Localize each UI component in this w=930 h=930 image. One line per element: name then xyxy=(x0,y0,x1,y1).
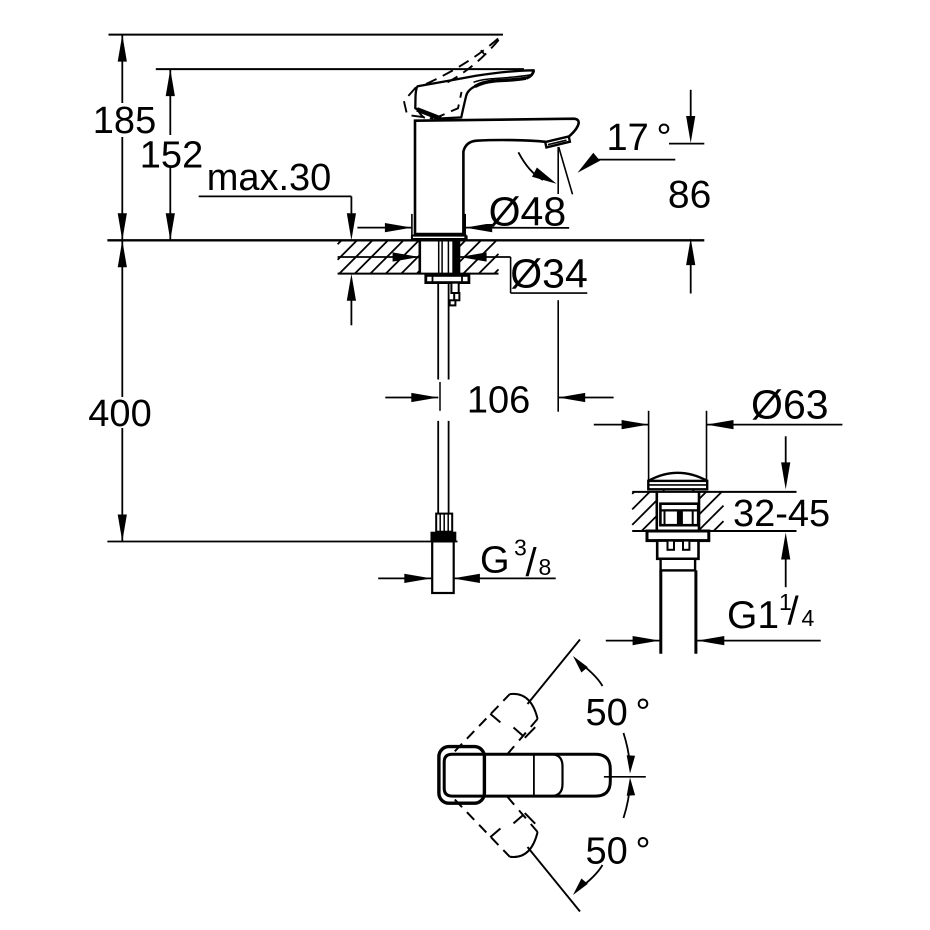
lower 50deg arc xyxy=(577,865,603,891)
dim 63 left arrow xyxy=(594,424,649,426)
waste tailpipe xyxy=(659,570,662,653)
dim 152 reference line xyxy=(156,68,524,70)
sink bottom line xyxy=(632,530,796,532)
waste lock nut xyxy=(657,541,698,559)
lever inner fold line xyxy=(474,75,532,83)
dim 185 vertical line with arrows xyxy=(121,35,123,103)
supply tube lower segment xyxy=(437,421,439,514)
counter top line xyxy=(107,239,704,241)
svg-text:4: 4 xyxy=(802,605,815,631)
svg-text:106: 106 xyxy=(467,379,530,421)
svg-text:8: 8 xyxy=(539,554,552,580)
G3/8 tail pipe xyxy=(432,541,454,593)
svg-text:/: / xyxy=(788,590,800,634)
waste washer flange xyxy=(647,531,709,541)
sink top line xyxy=(632,491,796,493)
waste step xyxy=(661,559,696,571)
handle rotated dashed lower xyxy=(455,797,538,857)
waste plug cap xyxy=(648,473,707,481)
handle inner contour xyxy=(534,754,562,796)
17deg leader line xyxy=(594,159,675,161)
dim 400 bottom reference line xyxy=(107,541,457,543)
dim 63 extension lines xyxy=(648,411,650,484)
dim G3/8 right arrow xyxy=(453,574,480,583)
lever chin thick edge xyxy=(417,109,441,118)
lever raised dashed outline xyxy=(404,34,503,118)
dim 106 right extension line xyxy=(557,300,559,412)
svg-text:max.30: max.30 xyxy=(207,157,332,199)
dim 106 line left part xyxy=(385,397,438,399)
spout stream 17deg slant line xyxy=(559,147,573,194)
shank hole right wall xyxy=(458,240,461,273)
svg-text:50 °: 50 ° xyxy=(585,831,650,873)
faucet base flange xyxy=(412,235,467,237)
svg-text:G: G xyxy=(480,540,510,582)
spout outlet vertical reference line xyxy=(557,147,559,196)
svg-text:/: / xyxy=(526,541,538,585)
svg-text:17 °: 17 ° xyxy=(606,117,671,159)
handle center line xyxy=(604,776,646,778)
dim 86 upper line with arrow xyxy=(690,90,692,122)
dim 34 label leader xyxy=(510,257,512,293)
svg-text:32-45: 32-45 xyxy=(733,493,830,535)
dim G1-1/4 left arrow xyxy=(606,640,660,642)
handle rotated dashed upper xyxy=(455,694,538,754)
dim G1-1/4 right arrow xyxy=(697,636,724,645)
dim 48 extension lines xyxy=(411,214,413,239)
upper 50deg boundary line xyxy=(528,640,581,705)
G3/8 nut xyxy=(431,532,457,542)
svg-text:Ø48: Ø48 xyxy=(489,189,567,235)
max.30 lower arrow xyxy=(347,274,356,301)
label 86 xyxy=(664,176,715,209)
dim 32-45 upper arrow xyxy=(785,436,787,468)
svg-text:50 °: 50 ° xyxy=(585,692,650,734)
17deg angle arc xyxy=(518,152,543,180)
tube break tick xyxy=(439,382,441,411)
handle seam line xyxy=(533,754,535,796)
counter bottom line xyxy=(338,273,499,275)
lower 50deg boundary line xyxy=(528,847,581,912)
waste body through sink xyxy=(655,492,658,531)
G3/8 thread section xyxy=(436,514,452,532)
svg-text:86: 86 xyxy=(668,173,711,216)
label O48 xyxy=(487,194,568,224)
lever underside thick edge xyxy=(475,78,526,86)
svg-text:152: 152 xyxy=(140,135,203,177)
dim G3/8 left arrow xyxy=(378,577,431,579)
pop-up rod lines in shank xyxy=(438,240,440,274)
waste body overflow window xyxy=(660,504,698,526)
dim 48 right arrow and label line xyxy=(465,223,492,232)
max.30 upper arrow xyxy=(347,213,356,240)
lever tip curl xyxy=(527,71,534,79)
upper 50deg arc xyxy=(577,661,603,687)
supply tube upper segment xyxy=(437,283,439,380)
sink hatching right xyxy=(699,492,706,499)
shank hole left wall xyxy=(418,240,421,273)
dim 86 lower line with arrow xyxy=(686,238,695,265)
dim 63 right arrow xyxy=(707,420,734,429)
dim 400 vertical line with arrows xyxy=(121,240,123,397)
dim 106 line right part xyxy=(558,397,613,399)
pop-up rod step B xyxy=(454,293,459,300)
max.30 leader line xyxy=(199,195,352,197)
dim 48 left arrow xyxy=(357,227,412,229)
dim 32-45 lower arrow xyxy=(781,533,790,560)
svg-text:G1: G1 xyxy=(727,594,779,637)
faucet body outline xyxy=(415,119,579,236)
lever handle solid xyxy=(415,70,534,118)
dim 34 left arrow xyxy=(338,256,420,258)
faucet body bottom edge xyxy=(415,233,463,235)
counter hatching left of hole xyxy=(338,240,342,244)
svg-text:Ø34: Ø34 xyxy=(510,251,588,297)
aerator outlet xyxy=(545,137,570,148)
svg-text:Ø63: Ø63 xyxy=(751,382,829,428)
dim 152 vertical line with arrows xyxy=(169,69,171,135)
spout level tick line xyxy=(669,143,704,145)
mounting nut xyxy=(426,275,469,282)
pop-up rod step C xyxy=(450,300,456,305)
dim 34 right arrow xyxy=(460,252,487,261)
pop-up rod step A xyxy=(451,283,458,293)
shank dark strip xyxy=(452,240,459,274)
handle knob end cap xyxy=(439,747,485,804)
dim 185 top reference line xyxy=(109,34,504,36)
sink hatching left xyxy=(632,492,634,494)
svg-text:400: 400 xyxy=(88,393,151,435)
counter hatching right of hole xyxy=(460,240,466,246)
handle top view body xyxy=(444,754,610,796)
